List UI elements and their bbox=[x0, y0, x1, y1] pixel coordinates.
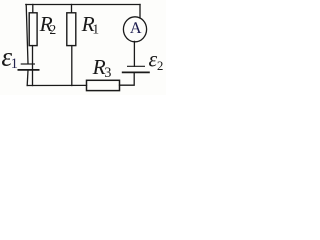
wire top horizontal bbox=[26, 4, 140, 6]
wire stub R1 bottom bbox=[71, 46, 73, 86]
wire bottom horizontal bbox=[27, 84, 86, 86]
wire ammeter to top-right corner bbox=[139, 5, 141, 19]
resistor R1 bbox=[67, 13, 76, 46]
wire stub R2 top bbox=[32, 5, 34, 13]
wire stub R2 bottom bbox=[32, 46, 34, 86]
ammeter letter A bbox=[130, 22, 141, 33]
wire battery E2 to ammeter bbox=[133, 41, 135, 66]
resistor R2 bbox=[29, 13, 37, 46]
wire stub R1 top bbox=[71, 5, 73, 13]
battery E1 short thin plate bbox=[21, 63, 35, 65]
wire R3 to battery E2 bbox=[120, 72, 135, 85]
label epsilon2 bbox=[149, 56, 157, 67]
resistor R3 bbox=[87, 80, 120, 90]
battery E2 short thin plate bbox=[127, 65, 145, 67]
label R1 bbox=[82, 17, 95, 31]
label R2 bbox=[40, 17, 53, 31]
battery E2 long thick plate bbox=[122, 71, 150, 73]
ammeter circle bbox=[123, 17, 146, 42]
wire left vertical upper (node with E1) bbox=[26, 5, 28, 64]
label R3 bbox=[93, 60, 106, 74]
battery E1 long thick plate bbox=[18, 69, 40, 71]
label epsilon1 bbox=[2, 53, 12, 66]
wire left vertical lower bbox=[26, 70, 29, 85]
